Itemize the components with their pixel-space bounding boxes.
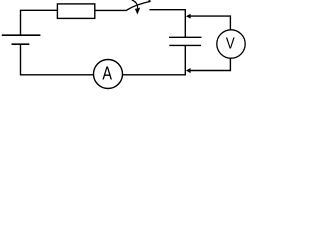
battery B1 long plate (+) bbox=[2, 34, 41, 36]
wire from capacitor down to bottom-right corner and left to ammeter bbox=[123, 45, 186, 74]
voltmeter V1 label bbox=[226, 36, 235, 53]
voltmeter probe arrowhead at capacitor top node bbox=[186, 14, 191, 19]
resistor R1 bbox=[57, 4, 94, 19]
voltmeter probe arrowhead at capacitor bottom node bbox=[186, 68, 191, 73]
wire from voltmeter down to bottom probe bbox=[190, 58, 230, 71]
ammeter A1 circle bbox=[94, 60, 123, 89]
ammeter A1 label bbox=[102, 63, 112, 84]
switch S1 closing-motion arrowhead bbox=[135, 8, 140, 15]
capacitor C1 bottom plate bbox=[169, 44, 201, 46]
wire from resistor to switch left terminal bbox=[95, 9, 127, 11]
wire from top probe to voltmeter bbox=[190, 16, 230, 30]
capacitor C1 top plate bbox=[169, 36, 202, 38]
wire from switch right terminal to top-right corner and down to capacitor bbox=[150, 10, 186, 38]
switch S1 closing-motion arc bbox=[132, 0, 138, 8]
voltmeter V1 circle bbox=[217, 30, 245, 58]
switch S1 blade bbox=[126, 1, 150, 10]
svg-text:A: A bbox=[102, 63, 112, 84]
wire from battery positive up to top-left corner and right to resistor bbox=[21, 10, 58, 35]
svg-text:V: V bbox=[226, 36, 235, 53]
wire from battery negative down to bottom-left corner and right to ammeter bbox=[21, 44, 94, 75]
battery B1 short plate (-) bbox=[12, 43, 30, 45]
switch S1 open tip dot bbox=[148, 0, 150, 2]
